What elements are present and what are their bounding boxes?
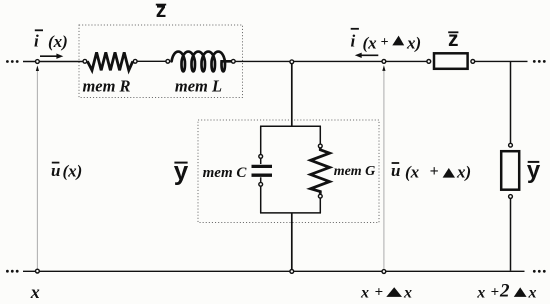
label z left	[156, 0, 167, 22]
node resistor left	[83, 59, 87, 63]
resistor mem G	[311, 148, 330, 194]
dots left top	[6, 60, 19, 63]
label y left	[174, 156, 189, 186]
svg-text:i: i	[34, 32, 39, 51]
node conductance top	[318, 144, 322, 148]
wire shunt branch bottom	[291, 213, 293, 270]
dots right bottom	[533, 270, 546, 273]
wire parallel bottom bar	[260, 212, 321, 214]
wire parallel top bar	[260, 125, 321, 127]
node capacitor top	[259, 155, 263, 159]
node Z box right	[471, 60, 475, 64]
node top middle junction	[290, 60, 294, 64]
label x+dx	[360, 285, 412, 302]
admittance box Y	[501, 151, 519, 190]
voltage arrow u(x) head	[36, 65, 39, 71]
current arrow i(x+dx)	[355, 53, 379, 58]
svg-text:x: x	[476, 285, 485, 302]
svg-text:z: z	[156, 0, 167, 22]
svg-text:(x): (x)	[63, 162, 83, 181]
svg-text:(x: (x	[363, 34, 378, 53]
svg-text:x: x	[30, 282, 40, 302]
impedance box Z	[434, 53, 468, 69]
capacitor mem C	[252, 159, 273, 182]
current arrow i(x)	[40, 54, 63, 59]
svg-text:+: +	[430, 163, 439, 180]
label i(x)	[34, 30, 68, 51]
svg-text:x: x	[360, 285, 369, 302]
svg-text:mem L: mem L	[175, 77, 222, 96]
svg-text:x): x)	[456, 163, 471, 182]
voltage arrow u(x+dx) head	[382, 65, 385, 71]
voltage arrow u(x) line	[36, 71, 38, 270]
svg-text:mem G: mem G	[334, 164, 376, 179]
dashed box Y section	[198, 120, 379, 223]
svg-text:x: x	[403, 285, 412, 302]
inductor mem L	[172, 52, 231, 72]
node top left	[36, 60, 40, 64]
wire capacitor branch upper	[260, 126, 262, 154]
node bottom left	[36, 269, 40, 273]
wire bottom	[23, 270, 525, 272]
svg-text:+: +	[381, 35, 389, 50]
svg-text:(x: (x	[405, 163, 420, 182]
label z right	[448, 28, 459, 51]
label y right	[527, 157, 541, 184]
svg-text:i: i	[351, 32, 356, 51]
svg-text:mem C: mem C	[203, 165, 248, 181]
wire inductor to Z box	[235, 60, 427, 62]
svg-text:2: 2	[499, 281, 510, 302]
node bottom middle	[290, 270, 294, 274]
node top x+dx	[382, 60, 386, 64]
node bottom x+dx	[382, 270, 386, 274]
wire conductance branch lower	[319, 199, 321, 214]
node inductor left	[166, 59, 170, 63]
wire capacitor branch lower	[260, 187, 262, 213]
svg-text:y: y	[174, 156, 189, 186]
wire right cell branch lower	[510, 199, 512, 271]
node capacitor bottom	[259, 182, 263, 186]
svg-text:x): x)	[406, 34, 421, 53]
node resistor right	[133, 59, 137, 63]
node Z box left	[427, 60, 431, 64]
node conductance bottom	[318, 194, 322, 198]
svg-text:(x): (x)	[48, 32, 68, 51]
label x+2dx	[476, 281, 536, 302]
label u(x+dx)	[391, 161, 471, 182]
wire Z box to right	[474, 60, 527, 62]
node inductor right	[231, 59, 235, 63]
dashed box Z section	[79, 25, 243, 98]
svg-text:+: +	[375, 285, 384, 301]
svg-text:u: u	[51, 161, 60, 180]
dots right top	[533, 60, 546, 63]
label i(x+dx)	[351, 29, 422, 53]
wire top left	[23, 61, 83, 63]
wire conductance branch upper	[319, 126, 321, 144]
resistor mem R	[87, 52, 132, 70]
node Y box bottom	[509, 195, 513, 199]
wire resistor to inductor	[137, 60, 167, 62]
svg-text:+: +	[491, 285, 500, 301]
svg-text:x: x	[528, 285, 537, 302]
wire shunt branch top	[291, 62, 293, 127]
voltage arrow u(x+dx) line	[383, 71, 385, 270]
label u(x)	[51, 161, 82, 181]
svg-text:mem R: mem R	[82, 77, 130, 96]
node Y box top	[509, 143, 513, 147]
dots left bottom	[6, 270, 19, 273]
wire right cell branch upper	[510, 62, 512, 143]
